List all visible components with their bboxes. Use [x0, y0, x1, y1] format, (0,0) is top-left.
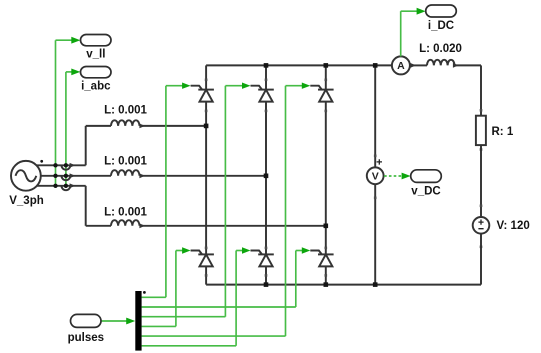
leg 3 port ticks — [325, 79, 328, 82]
thyristor T3 top — [318, 89, 334, 91]
arrow after L3 — [140, 225, 141, 227]
bridge leg 3 vertical — [325, 65, 327, 89]
gate wire pulse5 to T3 top — [142, 335, 286, 337]
v_ll tap wire — [55, 40, 57, 186]
bottom DC bus — [206, 284, 481, 286]
svg-text:L: 0.001: L: 0.001 — [104, 105, 147, 117]
inductor L1 (L: 0.001) — [111, 120, 140, 126]
wire row2 to bridge leg2 — [141, 175, 267, 177]
resistor port ticks — [480, 109, 483, 112]
thyristor T2 top — [258, 89, 274, 91]
voltage tap node phase A — [53, 163, 57, 167]
output port v_ll — [81, 35, 112, 46]
gate wire pulse3 to T2 top — [142, 316, 226, 318]
thyristor T1 top — [198, 89, 214, 91]
current sensor phase A — [64, 163, 68, 167]
junction row3 leg3 — [324, 224, 329, 229]
svg-text:i_DC: i_DC — [428, 20, 454, 32]
voltmeter branch wire — [374, 65, 376, 167]
demux port marker — [143, 291, 146, 294]
junction top bus voltmeter branch — [373, 63, 378, 68]
inductor L3 (L: 0.001) — [111, 220, 140, 226]
bridge leg 2 vertical — [265, 65, 267, 89]
input port pulses — [71, 314, 102, 327]
junction bottom bus voltmeter branch — [373, 282, 378, 287]
svg-text:L: 0.001: L: 0.001 — [104, 207, 147, 219]
source port marker — [40, 160, 43, 163]
junction row2 leg2 — [264, 174, 269, 179]
top DC bus — [206, 64, 392, 66]
svg-text:L: 0.001: L: 0.001 — [104, 156, 147, 168]
gate wire pulse2 to T3 bottom — [142, 306, 296, 308]
svg-text:pulses: pulses — [68, 332, 104, 344]
thyristor T1 bottom — [198, 253, 214, 255]
leg 2 port ticks — [265, 79, 268, 82]
pulses wire — [101, 320, 127, 322]
svg-text:R: 1: R: 1 — [492, 126, 514, 138]
gate wire pulse1 to T1 top — [142, 296, 166, 298]
junction bottom bus leg2 — [264, 282, 269, 287]
svg-text:L: 0.020: L: 0.020 — [419, 43, 462, 55]
output port v_DC — [411, 170, 442, 183]
v_DC wire (dashed) — [384, 175, 402, 177]
current sensor phase C — [64, 184, 68, 188]
right rail lower — [480, 234, 482, 285]
wire row1 to bridge leg1 — [141, 125, 207, 127]
wire row3 to inductor — [86, 225, 111, 227]
i_abc tap wire — [65, 72, 67, 186]
three-phase source V_3ph — [11, 161, 41, 191]
inductor L2 (L: 0.001) — [111, 170, 140, 176]
arrow after L2 — [140, 175, 141, 177]
wire phase C dropper — [85, 186, 87, 226]
svg-text:V: 120: V: 120 — [497, 220, 530, 232]
resistor R1 (R: 1) — [476, 116, 486, 145]
output port i_DC — [426, 5, 457, 17]
arrow after L4 — [453, 63, 459, 68]
output port i_abc — [81, 67, 112, 78]
wire ammeter to L4 — [411, 64, 427, 66]
ammeter U_A — [392, 56, 410, 74]
phase arrow C — [70, 183, 76, 188]
junction top bus leg2 — [264, 63, 269, 68]
svg-text:v_ll: v_ll — [86, 49, 105, 61]
voltmeter port ticks — [374, 155, 377, 158]
wire phase C from source — [37, 185, 86, 187]
svg-text:A: A — [397, 60, 405, 72]
phase arrow A — [70, 163, 76, 168]
arrow after L1 — [140, 125, 141, 127]
svg-text:i_abc: i_abc — [81, 81, 111, 93]
gate wire pulse4 to T1 bottom — [142, 325, 176, 327]
wire phase A from source — [37, 164, 86, 166]
svg-text:v_DC: v_DC — [411, 186, 440, 198]
i_DC wire — [400, 11, 402, 56]
junction row1 leg1 — [204, 124, 209, 129]
dc source port ticks — [480, 205, 483, 208]
right rail upper — [480, 65, 482, 115]
bridge leg 1 vertical — [205, 65, 207, 89]
svg-text:V_3ph: V_3ph — [9, 195, 44, 207]
wire row1 to inductor — [86, 125, 111, 127]
voltage tap node phase B — [53, 174, 57, 178]
arrow after ammeter — [410, 64, 411, 66]
thyristor T3 bottom — [318, 253, 334, 255]
inductor L4 (L: 0.020) — [427, 60, 455, 66]
gate wire pulse6 to T2 bottom — [142, 345, 237, 347]
voltage tap node phase C — [53, 184, 57, 188]
thyristor T2 bottom — [258, 253, 274, 255]
wire L4 to right rail — [455, 64, 482, 66]
phase arrow B — [70, 173, 76, 178]
svg-text:V: V — [372, 171, 379, 183]
junction top bus leg3 — [324, 63, 329, 68]
demux bar — [135, 291, 141, 351]
dc source V1 (V: 120) — [473, 217, 490, 234]
current sensor phase B — [64, 174, 68, 178]
wire row3 to bridge leg3 — [141, 225, 326, 227]
right rail middle — [480, 145, 482, 217]
leg 1 port ticks — [205, 79, 208, 82]
wire phase B from source — [41, 175, 111, 177]
wire phase A riser — [85, 126, 87, 165]
voltmeter U_V — [367, 167, 384, 184]
junction bottom bus leg3 — [324, 282, 329, 287]
